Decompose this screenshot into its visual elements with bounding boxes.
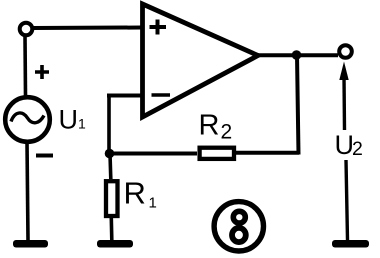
svg-text:2: 2 <box>221 121 233 144</box>
figure number 8 bottom loop <box>232 228 246 242</box>
minus sign U1 polarity <box>36 154 53 158</box>
svg-text:R: R <box>199 110 220 142</box>
ground R1 <box>97 240 133 248</box>
figure number 8 top loop <box>233 211 245 223</box>
svg-text:2: 2 <box>352 138 363 160</box>
wire feedback vertical <box>297 55 299 155</box>
wire junction to R2 <box>109 152 197 156</box>
resistor R1 <box>106 181 118 216</box>
junction node <box>105 149 115 159</box>
ground source <box>13 240 48 248</box>
ground output <box>332 240 369 248</box>
svg-text:1: 1 <box>149 195 157 212</box>
svg-text:U: U <box>59 105 79 135</box>
plus sign U1 polarity <box>35 65 49 79</box>
minus sign inverting input <box>152 93 171 97</box>
op-amp <box>143 4 259 117</box>
sine symbol <box>11 113 44 123</box>
wire inverting input <box>107 94 141 98</box>
wire source to ground <box>27 142 28 240</box>
resistor R2 <box>200 148 234 159</box>
wire U2 to ground <box>346 160 348 240</box>
wire R1 to ground <box>110 218 114 240</box>
wire feedback node vertical <box>107 94 111 154</box>
voltage arrow U2 line <box>342 76 346 130</box>
figure number circle <box>214 202 263 251</box>
AC source U1 <box>5 97 50 142</box>
svg-text:1: 1 <box>78 116 86 132</box>
wire R2 to feedback corner <box>236 151 299 155</box>
wire op-amp output <box>256 53 338 57</box>
wire junction to R1 <box>108 154 112 179</box>
wire input terminal to source <box>23 36 27 96</box>
plus sign non-inverting input <box>150 20 167 35</box>
input terminal <box>20 23 33 36</box>
junction output node <box>292 50 302 60</box>
voltage arrow U2 head <box>339 62 348 81</box>
svg-text:R: R <box>124 176 146 211</box>
wire non-inverting input <box>33 26 141 31</box>
output terminal <box>339 45 352 58</box>
